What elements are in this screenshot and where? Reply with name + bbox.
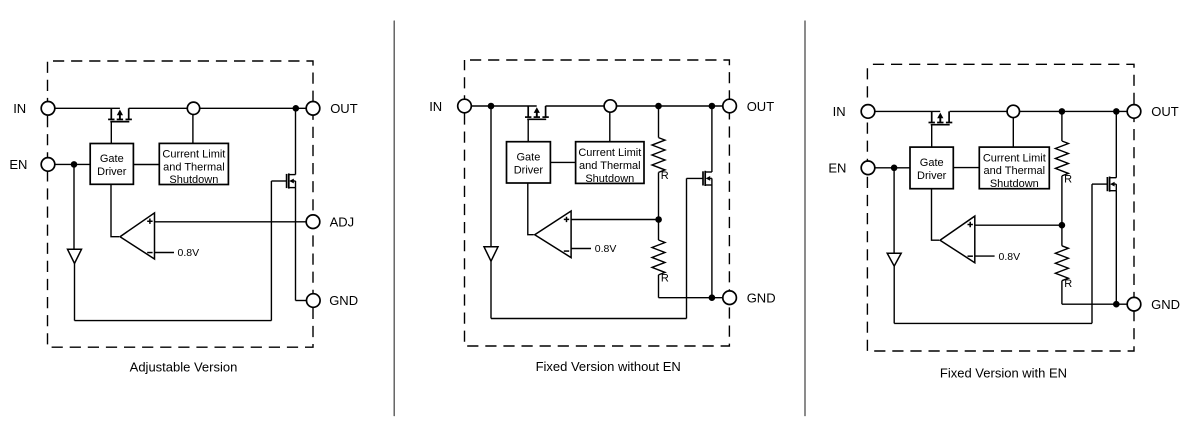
wire Q5 drain to node circle xyxy=(950,110,1008,112)
transistor Q2 discharge NMOS xyxy=(286,174,288,188)
dashed IC boundary (Fixed Version with EN) xyxy=(867,64,1134,351)
wire Gate Driver to Current Limit xyxy=(133,164,159,166)
wire riser to Q2 gate xyxy=(271,180,286,182)
wire Q3 drain to node circle xyxy=(546,105,605,107)
box U8 Current Limit and Thermal Shutdown xyxy=(979,147,1049,189)
op-amp U9 error amplifier xyxy=(940,216,975,263)
svg-text:ADJ: ADJ xyxy=(330,214,355,229)
node R1 top junction xyxy=(655,103,662,110)
svg-text:EN: EN xyxy=(9,157,27,172)
svg-text:R: R xyxy=(1064,278,1072,290)
wire Gate Driver down to op-amp output xyxy=(528,183,534,235)
wire Gate Driver to Current Limit xyxy=(953,167,979,169)
wire R3 top lead xyxy=(1061,111,1063,141)
wire bottom rail to Q2 gate riser xyxy=(75,320,272,322)
svg-text:Current Limit: Current Limit xyxy=(162,148,225,160)
pin EN xyxy=(41,158,55,172)
wire Q2 drain to OUT junction xyxy=(295,108,297,174)
pin GND xyxy=(307,294,321,308)
wire op-amp + input to feedback node xyxy=(571,219,659,221)
wire Q2 gate riser xyxy=(270,181,272,321)
wire op-amp - input to 0.8V xyxy=(571,248,591,250)
svg-text:Shutdown: Shutdown xyxy=(990,178,1039,190)
wire Gate Driver to Current Limit xyxy=(550,161,575,163)
node EN junction xyxy=(71,161,78,168)
box U7 Gate Driver xyxy=(910,147,953,189)
svg-text:R: R xyxy=(1064,173,1072,185)
separator line between diagram 1 and 2 xyxy=(393,21,395,416)
svg-text:GND: GND xyxy=(747,290,776,305)
wire bottom rail to Q6 gate riser xyxy=(894,322,1092,324)
box U1 Gate Driver xyxy=(90,144,133,185)
resistor R4 xyxy=(1055,246,1068,281)
wire R1 to feedback node xyxy=(658,172,660,219)
svg-text:GND: GND xyxy=(1151,297,1180,312)
node Q4 drain junction xyxy=(709,103,716,110)
resistor R1 xyxy=(652,138,665,173)
pin IN xyxy=(458,99,472,113)
wire inverter to bottom rail xyxy=(490,261,492,318)
wire R3 to feedback node xyxy=(1061,176,1063,225)
svg-text:IN: IN xyxy=(833,104,846,119)
inverter triangle shutdown path xyxy=(484,247,498,261)
svg-text:Gate: Gate xyxy=(920,157,944,169)
svg-text:0.8V: 0.8V xyxy=(178,247,200,259)
wire feedback node to R2 xyxy=(658,220,660,241)
node Q6 source junction xyxy=(1113,301,1120,308)
wire Q1 drain to node circle xyxy=(129,107,188,109)
svg-text:Current Limit: Current Limit xyxy=(578,147,641,159)
pin EN xyxy=(861,161,875,175)
node R3 top junction xyxy=(1059,108,1066,115)
node circle on OUT rail xyxy=(1007,105,1019,117)
wire riser to Q6 gate xyxy=(1092,183,1107,185)
node Q6 drain junction xyxy=(1113,108,1120,115)
wire Current Limit to node circle xyxy=(1012,118,1014,148)
svg-text:Driver: Driver xyxy=(97,166,127,178)
wire elbow to GND pin xyxy=(296,300,307,302)
svg-text:0.8V: 0.8V xyxy=(595,243,617,255)
wire feedback node to R4 xyxy=(1061,225,1063,246)
transistor Q4 discharge NMOS xyxy=(702,171,704,185)
pin ADJ xyxy=(306,215,320,229)
svg-text:IN: IN xyxy=(429,99,442,114)
wire IN to Q3 source/bulk xyxy=(471,105,536,107)
wire Q2 source to GND elbow xyxy=(295,188,297,301)
wire IN junction down to inverter xyxy=(490,106,492,247)
wire riser to Q4 gate xyxy=(687,177,704,179)
svg-text:Adjustable Version: Adjustable Version xyxy=(130,360,238,375)
wire Q4 source to GND rail xyxy=(711,185,713,298)
node feedback junction xyxy=(655,216,662,223)
transistor Q1 PMOS pass element xyxy=(110,108,112,119)
wire EN to Gate Driver xyxy=(875,167,910,169)
box U2 Current Limit and Thermal Shutdown xyxy=(159,143,228,184)
svg-text:Driver: Driver xyxy=(917,170,947,182)
wire R4 to GND rail xyxy=(1061,281,1063,305)
node EN junction xyxy=(891,165,898,172)
pin OUT xyxy=(1127,105,1141,119)
wire GND rail xyxy=(659,297,723,299)
svg-text:R: R xyxy=(661,170,669,182)
wire R1 top lead xyxy=(658,106,660,138)
wire Q4 drain to OUT junction xyxy=(711,106,713,172)
svg-text:R: R xyxy=(661,272,669,284)
wire Gate Driver down to op-amp output xyxy=(111,184,119,236)
separator line between diagram 2 and 3 xyxy=(804,21,806,416)
wire op-amp - input to 0.8V xyxy=(155,252,175,254)
svg-text:Gate: Gate xyxy=(100,153,124,165)
pin IN xyxy=(41,102,55,116)
svg-text:EN: EN xyxy=(828,161,846,176)
resistor R2 xyxy=(652,240,665,275)
svg-text:Fixed Version with EN: Fixed Version with EN xyxy=(940,365,1067,380)
node circle on OUT rail xyxy=(187,102,199,114)
svg-text:0.8V: 0.8V xyxy=(999,251,1021,263)
svg-text:OUT: OUT xyxy=(747,99,775,114)
wire op-amp + input to feedback node xyxy=(975,224,1062,226)
wire Current Limit to node circle xyxy=(192,115,194,144)
resistor R3 xyxy=(1055,141,1068,176)
node feedback junction xyxy=(1059,222,1066,229)
svg-text:GND: GND xyxy=(329,293,358,308)
svg-text:Shutdown: Shutdown xyxy=(585,173,634,185)
box U4 Gate Driver xyxy=(507,142,551,183)
svg-text:IN: IN xyxy=(13,101,26,116)
svg-text:and Thermal: and Thermal xyxy=(579,160,641,172)
inverter triangle EN path xyxy=(887,253,901,266)
wire Q3 gate to Gate Driver xyxy=(527,119,529,141)
wire Q6 gate riser xyxy=(1091,184,1093,323)
wire op-amp + input to ADJ xyxy=(155,221,307,223)
transistor Q5 PMOS pass element xyxy=(931,111,933,122)
pin GND xyxy=(1127,297,1141,311)
wire Q4 gate riser xyxy=(686,178,688,318)
wire bottom rail to Q4 gate riser xyxy=(491,318,687,320)
pin GND xyxy=(723,291,737,305)
node circle on OUT rail xyxy=(604,100,616,112)
node IN junction xyxy=(488,103,495,110)
svg-text:Fixed Version without EN: Fixed Version without EN xyxy=(536,359,681,374)
wire inverter to bottom rail xyxy=(74,263,76,320)
svg-text:Current Limit: Current Limit xyxy=(983,152,1046,164)
wire node circle to OUT xyxy=(1019,110,1127,112)
svg-text:OUT: OUT xyxy=(1151,104,1179,119)
op-amp U6 error amplifier xyxy=(535,211,571,258)
inverter triangle EN path xyxy=(68,249,82,263)
wire Q6 drain to OUT junction xyxy=(1115,111,1117,177)
svg-text:and Thermal: and Thermal xyxy=(984,165,1046,177)
wire GND rail xyxy=(1062,303,1127,305)
wire node circle to OUT xyxy=(200,107,307,109)
pin OUT xyxy=(306,102,320,116)
wire IN to Q1 source/bulk xyxy=(55,107,120,109)
wire op-amp - input to 0.8V xyxy=(975,255,995,257)
wire Q5 gate to Gate Driver xyxy=(931,125,933,147)
pin IN xyxy=(861,105,875,119)
box U5 Current Limit and Thermal Shutdown xyxy=(576,142,644,184)
transistor Q3 PMOS pass element xyxy=(527,106,529,117)
wire R2 to GND rail xyxy=(658,275,660,298)
wire Gate Driver down to op-amp output xyxy=(932,189,940,240)
dashed IC boundary (Fixed Version without EN) xyxy=(465,60,730,346)
wire inverter to bottom rail xyxy=(893,266,895,323)
svg-text:and Thermal: and Thermal xyxy=(163,161,225,173)
transistor Q6 discharge NMOS xyxy=(1106,177,1108,191)
node OUT junction xyxy=(293,105,300,112)
svg-text:OUT: OUT xyxy=(330,101,358,116)
wire Q1 gate to Gate Driver xyxy=(110,122,112,144)
wire Q6 source to GND rail xyxy=(1115,191,1117,305)
svg-text:Shutdown: Shutdown xyxy=(169,174,218,186)
svg-text:Gate: Gate xyxy=(516,151,540,163)
pin OUT xyxy=(723,99,737,113)
wire IN to Q5 source/bulk xyxy=(875,110,940,112)
op-amp U3 error amplifier xyxy=(120,213,155,259)
wire EN to Gate Driver xyxy=(55,163,90,165)
wire Current Limit to node circle xyxy=(609,112,611,142)
wire EN junction down to inverter xyxy=(73,164,75,249)
wire EN junction down to inverter xyxy=(893,168,895,253)
wire node circle to OUT xyxy=(616,105,722,107)
svg-text:Driver: Driver xyxy=(514,164,544,176)
node Q4 source junction xyxy=(709,294,716,301)
dashed IC boundary (Adjustable Version) xyxy=(48,61,314,347)
